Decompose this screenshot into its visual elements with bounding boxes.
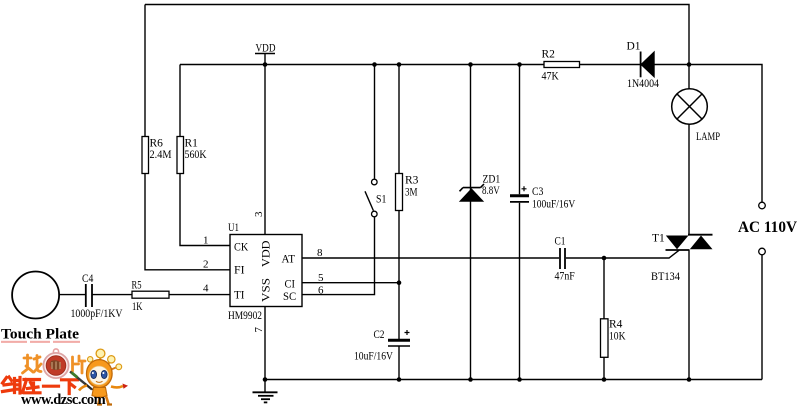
- svg-text:C4: C4: [82, 273, 94, 285]
- wire VDD rail left of R2: [180, 64, 544, 66]
- wire VDD stem to pin 3: [264, 54, 266, 235]
- svg-text:R6: R6: [150, 138, 164, 150]
- wire pin 7 to ground: [264, 307, 266, 380]
- svg-text:R4: R4: [609, 319, 623, 331]
- svg-text:10uF/16V: 10uF/16V: [354, 351, 394, 363]
- AC source top terminal: [759, 202, 766, 209]
- svg-text:3: 3: [253, 211, 265, 217]
- lamp: [672, 89, 708, 125]
- svg-text:1K: 1K: [132, 301, 143, 313]
- svg-text:Touch Plate: Touch Plate: [1, 327, 79, 343]
- char pian orange: [73, 356, 86, 373]
- AC source bottom terminal: [759, 248, 766, 255]
- wire triac to ground rail: [688, 250, 690, 380]
- junction R4 on ground rail: [602, 377, 607, 382]
- svg-text:TI: TI: [234, 288, 245, 302]
- junction ZD1 on ground rail: [468, 377, 473, 382]
- svg-text:47nF: 47nF: [555, 271, 575, 283]
- resistor R6: [142, 137, 149, 174]
- svg-text:T1: T1: [652, 233, 665, 245]
- svg-text:R1: R1: [185, 138, 199, 150]
- wire R3 to C2: [398, 211, 400, 340]
- resistor R2: [544, 62, 580, 68]
- svg-text:1N4004: 1N4004: [627, 78, 659, 90]
- svg-text:VDD: VDD: [259, 240, 273, 267]
- touch plate electrode: [12, 272, 59, 319]
- wire junction to lamp: [688, 65, 690, 89]
- junction R4 gate node: [602, 256, 607, 261]
- svg-text:1000pF/1KV: 1000pF/1KV: [71, 308, 124, 320]
- svg-text:HM9902: HM9902: [228, 308, 262, 322]
- junction ZD1 on rail: [468, 62, 473, 67]
- op-amp U1 HM9902 IC body: [230, 235, 302, 307]
- junction VDD stem on rail: [263, 62, 268, 67]
- junction C3 on rail: [517, 62, 522, 67]
- wire lamp to triac: [688, 125, 690, 235]
- wire R6 top: [144, 5, 146, 137]
- triac T1: [666, 235, 713, 250]
- svg-text:www.dzsc.com: www.dzsc.com: [21, 392, 106, 407]
- svg-text:SC: SC: [283, 289, 296, 303]
- svg-text:C1: C1: [555, 236, 566, 248]
- mascot figure: [70, 349, 128, 404]
- wire R4 to ground rail: [603, 357, 605, 379]
- watermark dzsc.com logo: [1, 341, 128, 407]
- svg-text:8: 8: [317, 247, 323, 259]
- svg-text:U1: U1: [228, 220, 239, 234]
- red CJK text wei ku yi xia: [3, 377, 78, 394]
- svg-text:6: 6: [318, 285, 324, 297]
- svg-text:560K: 560K: [185, 149, 208, 161]
- svg-text:AC 110V: AC 110V: [738, 219, 797, 236]
- svg-text:D1: D1: [627, 41, 641, 53]
- wire R2 to D1: [580, 64, 641, 66]
- capacitor C4: [86, 284, 92, 307]
- svg-text:1: 1: [203, 235, 209, 247]
- wire C4 to R5: [93, 294, 133, 296]
- wire rail to S1: [374, 65, 376, 179]
- junction lamp on rail: [687, 62, 692, 67]
- svg-text:FI: FI: [234, 263, 245, 277]
- magnifier glass: [43, 349, 68, 378]
- junction C2 on ground rail: [397, 377, 402, 382]
- switch S1: [365, 179, 377, 217]
- wire top horizontal rail: [145, 5, 689, 65]
- wire bottom ground rail: [265, 379, 762, 381]
- wire C3 to ground rail: [519, 203, 521, 380]
- capacitor C2 polarized: [388, 330, 410, 346]
- wire rail to C3: [519, 65, 521, 195]
- svg-text:VDD: VDD: [256, 43, 276, 55]
- wire rail to R3: [398, 65, 400, 174]
- wire pin 5: [302, 282, 399, 284]
- wire R1 top: [179, 65, 181, 137]
- zener diode ZD1: [460, 184, 485, 201]
- junction C3 on ground rail: [517, 377, 522, 382]
- resistor R4: [601, 319, 609, 358]
- junction R3 on rail: [397, 62, 402, 67]
- wire gate node to R4: [603, 258, 605, 319]
- wire pin 8 to C1: [302, 257, 559, 259]
- svg-text:R3: R3: [405, 175, 419, 187]
- power symbol VDD bar: [255, 53, 275, 55]
- wire R6 bottom to pin 2: [145, 174, 230, 270]
- wire C1 to triac gate: [566, 250, 679, 258]
- wire R1 bottom to pin 1: [180, 174, 230, 246]
- svg-text:VSS: VSS: [259, 278, 273, 302]
- resistor R5: [132, 291, 169, 298]
- wire touch plate to C4: [59, 294, 85, 296]
- wire S1 to pin 6: [302, 217, 375, 294]
- svg-text:C2: C2: [374, 329, 385, 341]
- junction triac on ground rail: [687, 377, 692, 382]
- wire C2 to ground rail: [398, 347, 400, 380]
- capacitor C1: [560, 248, 565, 269]
- svg-text:CK: CK: [234, 240, 248, 254]
- svg-text:R2: R2: [542, 49, 556, 61]
- char zhao orange: [23, 355, 42, 373]
- junction ground node: [263, 377, 268, 382]
- svg-text:47K: 47K: [542, 71, 560, 83]
- svg-text:2.4M: 2.4M: [150, 149, 172, 161]
- svg-text:2: 2: [203, 259, 209, 271]
- diode D1: [641, 52, 655, 78]
- junction pin 5 node: [397, 280, 402, 285]
- svg-text:5: 5: [318, 272, 324, 284]
- svg-text:7: 7: [253, 327, 265, 333]
- svg-text:S1: S1: [376, 194, 387, 206]
- wire ZD1 branch: [470, 65, 472, 380]
- svg-text:3M: 3M: [405, 187, 418, 199]
- junction S1 on rail: [372, 62, 377, 67]
- wire D1 to AC top terminal: [654, 65, 762, 203]
- svg-text:100uF/16V: 100uF/16V: [532, 199, 576, 211]
- svg-text:BT134: BT134: [651, 271, 680, 283]
- svg-text:C3: C3: [532, 186, 544, 198]
- svg-text:LAMP: LAMP: [696, 131, 720, 143]
- svg-text:R5: R5: [132, 279, 142, 291]
- ground: [253, 380, 278, 403]
- wire AC bottom terminal to ground rail: [761, 255, 763, 380]
- capacitor C3 polarized: [510, 186, 529, 202]
- svg-text:4: 4: [203, 283, 209, 295]
- svg-text:10K: 10K: [609, 331, 626, 343]
- resistor R1: [177, 137, 184, 174]
- resistor R3: [396, 174, 403, 211]
- wire R5 to pin 4: [169, 294, 230, 296]
- svg-text:AT: AT: [282, 252, 296, 266]
- svg-text:ZD1: ZD1: [483, 174, 501, 186]
- svg-text:8.8V: 8.8V: [482, 185, 500, 197]
- tiny pink url text line: [1, 341, 80, 343]
